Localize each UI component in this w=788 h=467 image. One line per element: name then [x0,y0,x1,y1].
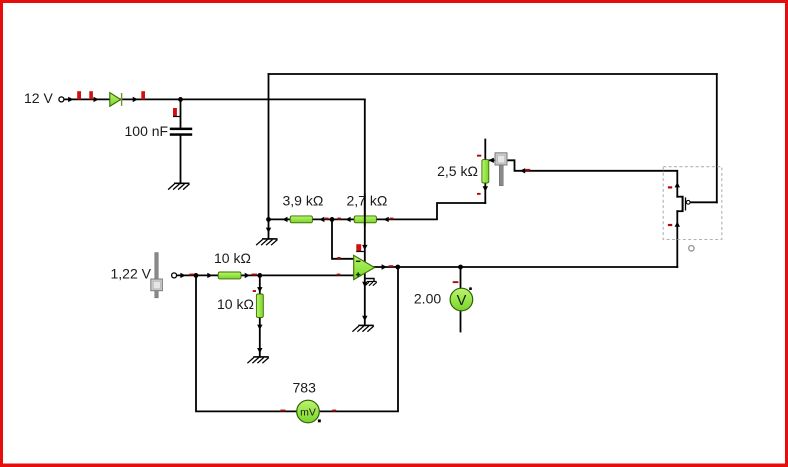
svg-text:mV: mV [300,406,316,418]
svg-text:10 kΩ: 10 kΩ [217,296,254,312]
svg-text:2,7 kΩ: 2,7 kΩ [347,193,388,209]
svg-text:783: 783 [293,380,317,396]
svg-text:2.00: 2.00 [414,291,441,307]
svg-text:V: V [457,293,467,309]
svg-text:10 kΩ: 10 kΩ [214,250,251,266]
svg-text:100 nF: 100 nF [125,123,169,139]
svg-text:1,22 V: 1,22 V [111,266,152,282]
svg-text:2,5 kΩ: 2,5 kΩ [437,163,478,179]
svg-text:3,9 kΩ: 3,9 kΩ [283,193,324,209]
svg-text:12 V: 12 V [24,90,53,106]
